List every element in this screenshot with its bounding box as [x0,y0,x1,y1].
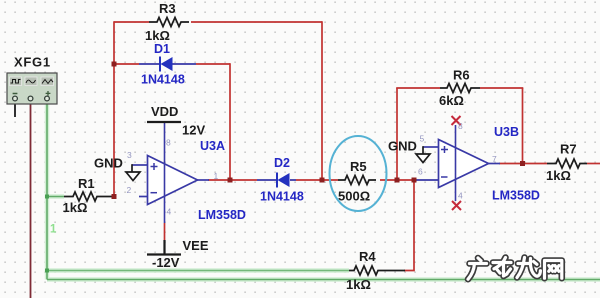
resistor R5 [338,176,376,185]
char long [517,258,540,278]
wire: red vertical to R4 [404,180,414,271]
svg-text:LM358D: LM358D [198,208,246,222]
minus sign [441,176,448,178]
triangle body [439,140,489,188]
svg-text:D2: D2 [274,156,290,170]
svg-text:1: 1 [50,224,57,236]
wire: red left vertical inverting node [113,21,115,196]
node: green junction at R4 tap [45,269,49,273]
svg-text:4: 4 [458,191,463,201]
minus mark [13,93,18,95]
wire: red R6 top row [396,87,523,89]
svg-text:5: 5 [420,134,425,144]
svg-text:R4: R4 [359,249,376,264]
svg-text:1kΩ: 1kΩ [63,200,88,215]
plus sign [151,163,158,170]
ground at U3A pin3 [126,172,140,181]
svg-text:R6: R6 [453,68,470,83]
resistor R3 [149,18,189,27]
svg-text:3: 3 [127,150,132,160]
wire: red D2 to R5 row [296,179,414,181]
terminal circles [13,96,18,101]
VDD power symbol [147,121,181,123]
plus sign [441,146,448,153]
svg-text:U3A: U3A [200,139,225,153]
svg-text:6: 6 [418,167,423,177]
svg-text:12V: 12V [182,123,205,138]
wire: XFG1 middle terminal maroon wire [30,101,32,298]
svg-text:1kΩ: 1kΩ [346,277,371,292]
char guang [468,258,487,279]
wire: red R6 right vertical to output [522,88,524,164]
node D1 left [112,62,117,67]
waveform button triangle [41,77,54,86]
triangle body [148,156,198,205]
node R4 / pin6 [412,178,417,183]
node R3 / R5 left [320,178,325,183]
wire: red U3B output row to R7 [499,163,600,165]
wire: red R3 right vertical [321,21,323,180]
op-amp U3B [414,125,500,201]
svg-text:LM358D: LM358D [492,189,540,203]
waveform button sine [25,77,37,86]
op-amp U3A [132,122,209,223]
svg-text:7: 7 [492,154,497,164]
pin 2 lead [139,196,148,198]
pin 7 lead [488,163,500,165]
wire: green to R1 [47,196,64,198]
svg-text:8: 8 [458,121,463,131]
svg-text:500Ω: 500Ω [338,189,370,204]
function generator XFG1 [7,73,57,117]
svg-text:6kΩ: 6kΩ [439,93,464,108]
watermark 广东龙网 [468,258,562,280]
svg-text:R5: R5 [350,159,367,174]
svg-text:1kΩ: 1kΩ [145,28,170,43]
node: green junction at R1 tap [45,195,49,199]
wire: red feedback top R3 row [114,21,322,23]
svg-text:U3B: U3B [494,125,519,139]
svg-text:8: 8 [166,138,171,148]
wire: green bottom bus [47,279,600,281]
pin 5 lead [423,146,439,148]
svg-text:R3: R3 [159,1,176,16]
node U3A output / D1 [228,178,233,183]
wire: red U3A output row [208,179,257,181]
svg-text:-12V: -12V [152,255,180,270]
node R5 right / R6 [395,178,400,183]
pin 3 lead [132,164,148,166]
svg-text:2: 2 [127,185,132,195]
svg-text:VDD: VDD [151,104,178,119]
svg-text:GND: GND [388,139,417,154]
svg-text:VEE: VEE [183,238,209,253]
resistor R7 [547,159,587,168]
VEE power symbol [164,223,166,240]
annotation ellipse around R5 [330,136,387,211]
wire: red R6 left vertical [396,88,398,180]
pin 1 lead [197,179,209,181]
wire: red D1 right vertical to output [229,63,231,180]
left terminal stub [14,101,16,117]
node U3B output / R6 [520,161,525,166]
svg-text:XFG1: XFG1 [14,55,51,70]
svg-text:1N4148: 1N4148 [141,73,185,87]
svg-text:R7: R7 [560,142,577,157]
svg-text:1N4148: 1N4148 [260,190,304,204]
minus sign [151,192,158,194]
plus mark [46,91,51,96]
char wang [545,261,562,279]
svg-text:1kΩ: 1kΩ [546,168,571,183]
wire: green halo group [47,101,600,280]
wire: green vertical from XFG1 [46,101,48,280]
wire: green to R4 [47,270,349,272]
no-connect X bottom [452,201,461,210]
resistor R1 [64,192,112,201]
char dong [493,258,511,277]
diode D1 [139,57,196,72]
pin 6 lead [414,179,439,181]
power rail through body [455,125,457,201]
node R1 / inverting input [112,194,117,199]
waveform button square [10,77,22,86]
resistor R4 [349,266,405,275]
power rail through body [164,122,166,223]
node junction dots [112,62,526,200]
svg-text:D1: D1 [154,42,170,56]
diode D2 [257,173,296,188]
svg-text:1: 1 [214,171,219,181]
wire: red D1 row segments [114,63,230,65]
svg-text:4: 4 [167,207,172,217]
svg-text:R1: R1 [78,176,95,191]
resistor R6 [440,84,480,93]
ground at U3B pin5 [416,154,430,163]
svg-text:GND: GND [94,156,123,171]
no-connect X top [452,116,461,125]
